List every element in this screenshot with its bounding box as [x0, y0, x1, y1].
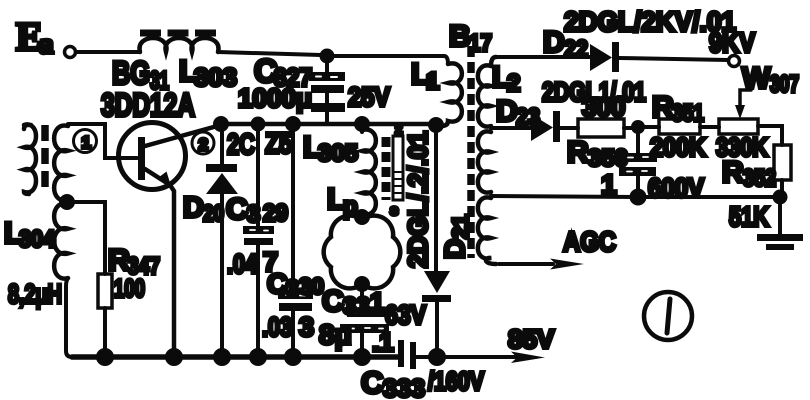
svg-text:.1: .1: [372, 327, 394, 357]
svg-text:C: C: [322, 285, 344, 318]
svg-text:33: 33: [343, 293, 370, 320]
node bus x437: [430, 350, 444, 364]
svg-text:.04: .04: [227, 249, 257, 279]
svg-text:s: s: [390, 202, 398, 219]
wire L303 to junction: [218, 52, 321, 55]
transformer B17 core: [449, 20, 492, 258]
capacitor C329: [226, 124, 288, 357]
potentiometer W307: [716, 62, 799, 162]
capacitor C333: [361, 340, 485, 400]
svg-text:1: 1: [82, 133, 91, 152]
svg-text:307: 307: [770, 71, 799, 98]
node L305/Lp junction: [356, 211, 368, 223]
node top bus x362: [356, 118, 368, 130]
node top bus x258: [253, 119, 264, 130]
svg-text:200K: 200K: [650, 132, 706, 162]
svg-text:2: 2: [507, 70, 520, 97]
terminal 9KV: [709, 27, 755, 67]
svg-text:63V: 63V: [385, 300, 426, 330]
svg-text:B: B: [449, 20, 471, 53]
svg-text:85V: 85V: [508, 324, 555, 354]
svg-text:25V: 25V: [348, 82, 390, 112]
svg-text:a: a: [39, 28, 54, 60]
node Lp bottom junction: [356, 278, 368, 290]
node winding tap: [61, 196, 73, 208]
core of L305/Lp: [386, 121, 403, 219]
wire junction to L1: [333, 56, 448, 64]
diode D20: [183, 124, 292, 357]
svg-text:2: 2: [199, 135, 208, 154]
inductor L303: [140, 33, 237, 92]
capacitor C331: [319, 284, 426, 357]
capacitor C327: [238, 53, 390, 122]
svg-text:R: R: [567, 136, 589, 169]
capacitor 600V: [601, 132, 704, 203]
diode D23: [491, 77, 646, 142]
svg-text:3: 3: [299, 312, 314, 342]
wire L304 bottom to ground bus: [66, 278, 72, 357]
svg-text:1: 1: [426, 68, 439, 95]
svg-text:9KV: 9KV: [709, 27, 755, 58]
svg-text:1: 1: [370, 287, 384, 317]
inductor Lp: [324, 183, 401, 288]
transistor BG31 label: [101, 55, 195, 123]
svg-text:R: R: [652, 91, 674, 124]
resistor R352: [722, 126, 791, 232]
svg-text:100: 100: [114, 275, 145, 303]
svg-text:z: z: [395, 121, 403, 138]
svg-text:8μ: 8μ: [319, 319, 352, 350]
svg-text:C: C: [226, 193, 248, 226]
svg-text:p: p: [343, 193, 358, 220]
resistor R351: [643, 91, 719, 162]
node bus x105: [98, 350, 112, 364]
transistor BG31: [119, 123, 222, 358]
wire AGC: [499, 226, 616, 270]
svg-text:2C: 2C: [227, 129, 255, 161]
svg-text:29: 29: [263, 200, 288, 227]
inductor L1: [411, 58, 462, 126]
svg-text:/160V: /160V: [428, 366, 485, 396]
svg-text:AGC: AGC: [563, 226, 616, 257]
wire L2 tap to R352 bottom: [491, 196, 780, 197]
winding 1 of T1: [54, 126, 68, 201]
svg-text:D: D: [496, 95, 518, 128]
node bus x174: [167, 350, 181, 364]
svg-text:20: 20: [203, 200, 224, 226]
svg-text:51K: 51K: [729, 201, 769, 232]
svg-text:23: 23: [516, 104, 540, 131]
svg-text:352: 352: [743, 165, 776, 192]
wire Ea to L303: [76, 50, 140, 54]
svg-text:D: D: [183, 192, 204, 224]
diode D22: [496, 6, 736, 72]
svg-text:22: 22: [564, 36, 588, 63]
node bus x258: [251, 350, 265, 364]
winding 1 marker: [74, 130, 97, 153]
inductor L304: [4, 204, 68, 309]
wire 85V output: [443, 324, 555, 363]
svg-text:305: 305: [318, 140, 358, 167]
node R350/R351 junction: [633, 122, 643, 132]
svg-text:3DD12A: 3DD12A: [101, 87, 195, 123]
svg-text:1000μ: 1000μ: [238, 83, 312, 113]
svg-text:300: 300: [582, 92, 625, 122]
node top bus x293: [287, 118, 299, 130]
svg-text:3: 3: [247, 201, 260, 228]
ground: [757, 197, 803, 250]
svg-text:C: C: [267, 268, 287, 299]
transformer T1 core: [41, 125, 49, 193]
svg-text:R: R: [108, 244, 130, 277]
capacitor C330: [262, 124, 324, 357]
node 600V cap bottom: [632, 191, 645, 204]
resistor R350: [567, 92, 633, 172]
svg-text:.03: .03: [262, 312, 292, 342]
node top bus x436: [430, 119, 442, 131]
svg-text:Z5: Z5: [265, 128, 292, 160]
svg-text:2DGL/.2/.01: 2DGL/.2/.01: [403, 131, 433, 268]
svg-text:W: W: [742, 62, 771, 95]
svg-text:D: D: [543, 26, 565, 59]
svg-text:R: R: [722, 156, 744, 189]
terminal Ea: [16, 14, 76, 60]
node collector junction: [215, 118, 227, 130]
svg-text:303: 303: [194, 64, 237, 92]
svg-text:17: 17: [469, 30, 492, 57]
svg-text:351: 351: [672, 100, 704, 127]
svg-text:C: C: [361, 365, 383, 400]
svg-text:30: 30: [299, 273, 324, 299]
resistor R347: [73, 202, 160, 357]
marker circled 1: [644, 292, 692, 340]
svg-text:8,2μH: 8,2μH: [8, 279, 62, 309]
node R352 bottom: [775, 192, 786, 203]
node junction C327 top: [322, 51, 333, 62]
node bus x362: [355, 350, 369, 364]
svg-text:333: 333: [383, 375, 425, 400]
node bus x293: [286, 350, 300, 364]
svg-text:3: 3: [286, 275, 299, 301]
node bus x222: [215, 350, 229, 364]
svg-text:D: D: [439, 239, 470, 259]
wire base: [68, 124, 137, 158]
inductor L305: [303, 124, 376, 215]
diode D21: [403, 125, 473, 357]
svg-text:BG: BG: [112, 55, 150, 91]
winding 2 marker: [192, 132, 214, 154]
inductor L2: [478, 57, 520, 264]
wire top bus: [221, 122, 436, 127]
wire ground bus: [72, 354, 399, 360]
transformer T1 left winding: [24, 124, 36, 194]
svg-text:304: 304: [19, 226, 56, 253]
